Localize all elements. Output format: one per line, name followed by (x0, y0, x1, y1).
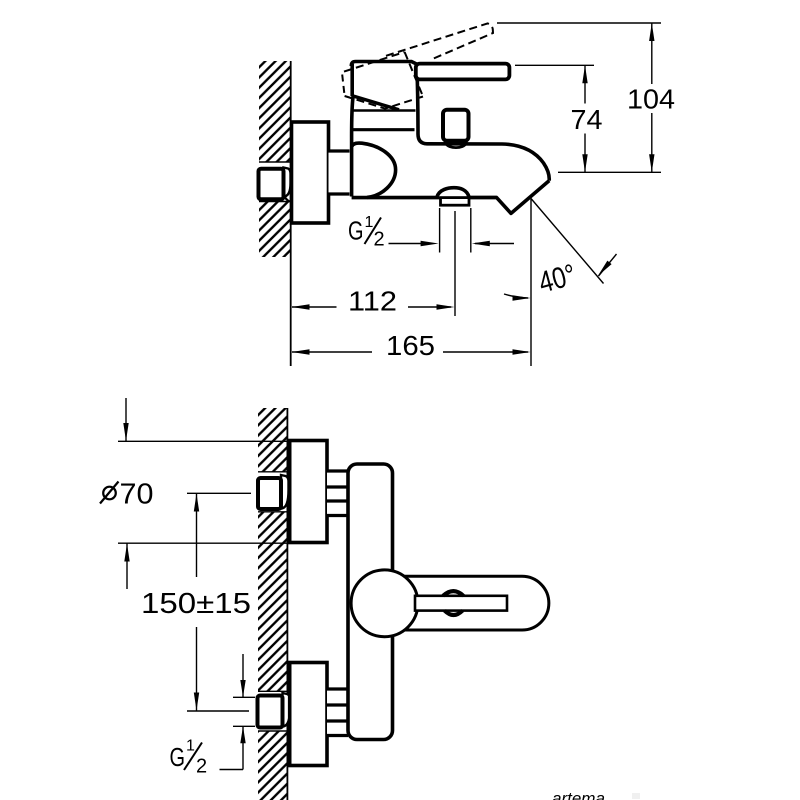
arrow 104 bottom (649, 154, 654, 172)
arrow 150 bottom down (194, 693, 199, 711)
svg-text:G: G (348, 216, 364, 246)
union lip (284, 168, 291, 197)
arrow 165 left (292, 349, 310, 354)
lever stadium (400, 576, 549, 630)
arrow G1/2 left-pointing (472, 241, 490, 246)
cap outline (351, 62, 416, 67)
spout bottom (352, 181, 550, 214)
svg-text:104: 104 (627, 84, 675, 115)
40deg arrow tail (599, 254, 617, 276)
40deg leader line (531, 199, 604, 284)
wall band hatch (258, 408, 287, 800)
G1/2 leader left (389, 243, 426, 245)
svg-text:G: G (170, 742, 186, 772)
flange 1 (290, 441, 327, 543)
wall face line bottom view (286, 408, 288, 800)
center extension of shower outlet (454, 211, 456, 316)
G1/2 leader horizontal (220, 769, 244, 771)
cartridge dome (352, 143, 396, 197)
svg-text:74: 74 (571, 104, 603, 135)
arrow 74 top (582, 65, 587, 83)
cap right edge + spout top (417, 63, 549, 181)
dim 74 line (584, 65, 586, 103)
arrow G1/2 right-pointing (421, 241, 439, 246)
wall flange (292, 122, 329, 223)
arrow 40deg on leader (598, 261, 612, 276)
wall hole edge top (259, 161, 291, 163)
top reference arrow line (125, 398, 127, 441)
diverter base (445, 141, 466, 148)
wall hole edges union2 (258, 690, 288, 692)
dashed cap right edge (405, 52, 423, 97)
body left edge (352, 97, 353, 197)
dim 150 line (196, 494, 198, 578)
svg-text:165: 165 (386, 330, 435, 361)
union nut 2 (258, 696, 283, 728)
cartridge dome circle (351, 570, 418, 637)
extension line spout outlet (558, 171, 661, 173)
G1/2 extension lines (439, 208, 441, 253)
body bar (348, 464, 393, 740)
union lip 2 (283, 693, 291, 727)
stub 1 thread lines (327, 469, 348, 472)
40deg horizontal arrow tail (504, 294, 528, 298)
stub 1 white (327, 473, 348, 515)
extension line handle top (515, 64, 594, 66)
extension at spout tip 40deg vertical (530, 199, 532, 366)
extension flange top (118, 440, 289, 442)
arrow G1/2 bottom up (240, 726, 245, 743)
diverter knob (443, 110, 469, 141)
svg-text:1: 1 (186, 738, 195, 755)
dashed cap bottom edge (345, 96, 423, 109)
G1/2 dim line bottom (242, 726, 244, 769)
cap bottom diagonal (352, 96, 400, 110)
svg-text:150±15: 150±15 (141, 588, 251, 620)
stub 2 thread lines (327, 687, 348, 690)
dashed cap left edge (342, 75, 344, 97)
wall hole edges union1 (258, 471, 288, 473)
flange 2 (290, 663, 327, 766)
wall face line (290, 61, 292, 366)
arrow top reference down (123, 423, 128, 441)
neck band lines (354, 109, 416, 112)
svg-text:70: 70 (120, 479, 154, 511)
arrow dia70 up (124, 544, 129, 562)
arrow G1/2 top down (240, 680, 245, 697)
dia70 bottom arrow line (126, 544, 128, 590)
arrow 112 right (437, 304, 455, 309)
G1/2 extension bottom (233, 725, 255, 727)
stub 2 white (327, 691, 348, 735)
arrow 165 right (513, 349, 531, 354)
svg-text:2: 2 (196, 756, 207, 778)
union nut (259, 169, 284, 200)
shower outlet collar (441, 198, 470, 206)
wall hole edge bottom (259, 201, 291, 203)
dim 165 line (292, 351, 372, 353)
wall hatch gap for union (257, 163, 291, 202)
arrow 40deg at vertical (513, 295, 531, 300)
dim 104 line (651, 23, 653, 84)
union nut 1 (258, 478, 281, 509)
dim 112 line (292, 306, 337, 308)
text dia70 (103, 487, 116, 500)
svg-text:artema: artema (552, 789, 605, 800)
extension line top (dashed lever tip) (497, 22, 661, 24)
screw bump bottom (445, 611, 463, 615)
hatch gap union 1 (256, 472, 287, 512)
screw bump top (443, 591, 464, 596)
wall hatch (259, 61, 291, 257)
arrow 74 bottom (582, 154, 587, 172)
connector stub (329, 153, 350, 193)
G1/2 extension top (233, 696, 255, 698)
extension flange bottom (118, 542, 289, 544)
union lip 1 (281, 475, 289, 509)
arrow 112 left (292, 304, 310, 309)
svg-text:2: 2 (374, 229, 385, 251)
extension union1 center (187, 492, 251, 494)
G1/2 arrow line right (475, 243, 514, 245)
arrow 104 top (649, 23, 654, 41)
G1/2 dim line top (242, 654, 244, 697)
arrow 150 top up (194, 494, 199, 512)
shower outlet dome (437, 188, 469, 197)
svg-text:1: 1 (365, 214, 374, 231)
lever grip slot (415, 596, 507, 611)
dashed cap top edge (raised position) (344, 52, 405, 72)
faint watermark (552, 789, 640, 800)
svg-text:112: 112 (348, 286, 397, 317)
dashed lever bar (raised position) (386, 23, 493, 59)
lever bar (416, 64, 510, 80)
hatch gap union 2 (256, 692, 287, 732)
extension union2 center (187, 710, 249, 712)
